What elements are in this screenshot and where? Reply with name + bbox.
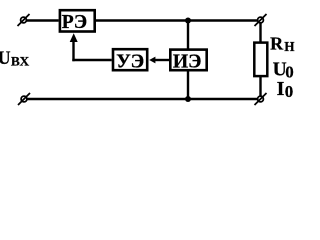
- svg-text:ВХ: ВХ: [11, 55, 30, 69]
- svg-text:U: U: [0, 48, 11, 69]
- svg-text:ИЭ: ИЭ: [173, 51, 202, 72]
- svg-text:УЭ: УЭ: [116, 51, 144, 72]
- svg-text:Н: Н: [284, 39, 295, 54]
- svg-text:I: I: [277, 78, 285, 100]
- svg-text:0: 0: [285, 82, 294, 101]
- svg-text:0: 0: [285, 63, 294, 82]
- svg-text:РЭ: РЭ: [62, 12, 87, 33]
- svg-text:R: R: [270, 34, 284, 54]
